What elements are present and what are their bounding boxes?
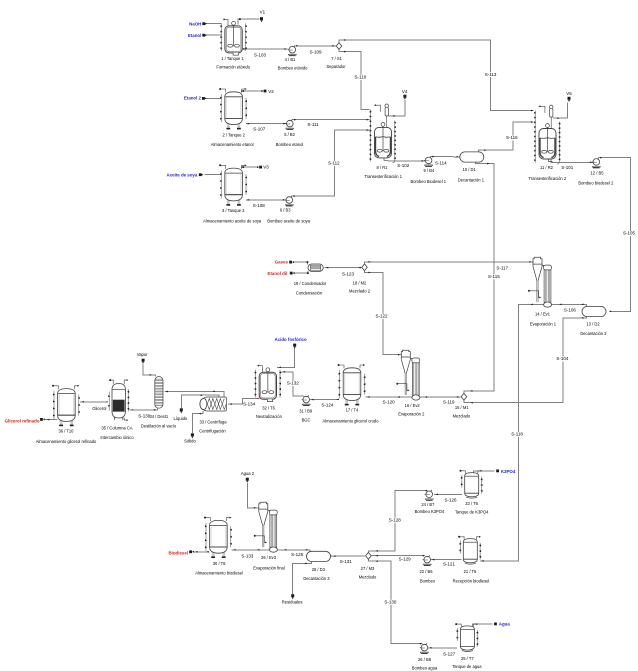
tank 21/T5 Recepcion biodiesel — [458, 536, 481, 564]
svg-text:S-119: S-119 — [443, 399, 455, 404]
wire S-124 — [310, 399, 338, 401]
pump 9/B4 Bombeo Biodesel 1 — [424, 156, 433, 167]
svg-text:S-101: S-101 — [561, 165, 574, 170]
tank 30/T8 Almacenamiento biodiesel — [204, 517, 232, 558]
terminal Etanol — [202, 34, 205, 37]
wire Etanol 2 inlet — [206, 97, 221, 99]
wire Vapor inlet — [143, 364, 156, 377]
svg-text:15 / M1: 15 / M1 — [455, 405, 469, 410]
wire V1 vent — [238, 19, 260, 25]
svg-text:V5: V5 — [566, 91, 572, 96]
terminal Acido fosforico — [293, 344, 296, 347]
svg-text:Tanque de agua: Tanque de agua — [452, 664, 482, 669]
svg-text:Transesterificación 1: Transesterificación 1 — [364, 174, 402, 179]
label S-132 — [287, 381, 298, 386]
svg-text:S-122: S-122 — [375, 314, 388, 319]
svg-text:5 / B2: 5 / B2 — [284, 132, 295, 137]
svg-text:Almacenamiento glicerol refina: Almacenamiento glicerol refinado — [36, 439, 97, 444]
wire S-106 S-118 — [480, 304, 587, 561]
svg-text:Evaporación final: Evaporación final — [253, 566, 284, 571]
svg-text:Almacenamiento glicerol crudo: Almacenamiento glicerol crudo — [323, 418, 380, 423]
svg-text:Centrifugación: Centrifugación — [199, 428, 226, 433]
svg-text:26 / B8: 26 / B8 — [418, 657, 432, 662]
wire S-107 — [246, 123, 286, 125]
wire Acido fosforico inlet — [277, 349, 295, 368]
mixer 15/M1 Mezclado — [461, 393, 467, 400]
wire NaOH inlet — [206, 23, 221, 25]
label S-110 — [355, 75, 366, 80]
decanter 28/D3 Decantacion 3 — [307, 551, 331, 561]
tank 17/T4 Almacenamiento glicerol crudo — [338, 364, 366, 405]
label S-104 — [557, 357, 568, 362]
svg-text:S-129: S-129 — [399, 556, 412, 561]
wire S-115 — [464, 162, 494, 393]
wire S-116 — [478, 122, 533, 153]
svg-text:V2: V2 — [268, 89, 274, 94]
svg-text:S-107: S-107 — [253, 127, 266, 132]
wire S-129 — [372, 555, 426, 557]
svg-text:S-120: S-120 — [383, 399, 396, 404]
wire S-128 — [368, 491, 427, 553]
wire Glicerol — [80, 401, 107, 403]
terminal K3PO4 — [496, 470, 499, 473]
wire S-101 — [551, 160, 593, 163]
svg-text:S-118: S-118 — [511, 432, 523, 437]
wire S-110 splitter bottom branch — [339, 49, 370, 109]
svg-text:8 / R1: 8 / R1 — [377, 165, 389, 170]
label S-122 — [376, 314, 387, 319]
label S-116 — [506, 136, 517, 141]
label S-112 — [328, 161, 339, 166]
wire S-122 — [365, 271, 402, 355]
wire V3 vent — [242, 167, 259, 169]
wire Solido outlet — [192, 411, 203, 433]
svg-text:Tanque de K3PO4: Tanque de K3PO4 — [455, 510, 489, 515]
centrifuge 33/Centrifuga — [200, 397, 227, 411]
svg-text:16 / Ev2: 16 / Ev2 — [405, 403, 421, 408]
svg-text:S-123: S-123 — [342, 272, 355, 277]
svg-text:Almacenamiento etanol: Almacenamiento etanol — [211, 142, 254, 147]
svg-text:Formación etóxido: Formación etóxido — [216, 65, 250, 70]
pump 31/B9 BGC — [302, 395, 311, 406]
svg-text:S-132: S-132 — [287, 381, 300, 386]
svg-text:27 / M3: 27 / M3 — [361, 566, 375, 571]
svg-text:S-104: S-104 — [556, 356, 569, 361]
svg-text:Gases: Gases — [275, 260, 289, 265]
svg-text:V3: V3 — [263, 164, 269, 169]
tank 3/Tanque 3 Almacenamiento aceite de soya — [219, 164, 247, 205]
reactor 8/R1 Transesterificacion 1 — [370, 104, 396, 163]
wire Gases outlet — [292, 262, 307, 265]
svg-text:Decantación 3: Decantación 3 — [303, 576, 330, 581]
wire S-108 — [246, 199, 286, 201]
svg-text:14 / Ev1: 14 / Ev1 — [535, 311, 551, 316]
svg-text:17 / T4: 17 / T4 — [346, 407, 359, 412]
terminal Glicerol refinado — [40, 418, 43, 421]
svg-text:33 / Centrífuga: 33 / Centrífuga — [199, 419, 227, 424]
svg-text:Etanol 2: Etanol 2 — [184, 96, 202, 101]
svg-text:25 / T7: 25 / T7 — [461, 656, 474, 661]
wire S-123 — [324, 267, 361, 269]
svg-text:24 / B7: 24 / B7 — [421, 502, 435, 507]
wire S-113 splitter top branch — [339, 40, 534, 111]
wire Agua inlet — [473, 624, 493, 626]
wire Biodiesel outlet — [193, 551, 209, 553]
svg-text:Decantación 1: Decantación 1 — [458, 178, 485, 183]
svg-text:28 / D3: 28 / D3 — [312, 567, 326, 572]
svg-text:S-127: S-127 — [443, 651, 456, 656]
svg-text:S-113: S-113 — [485, 72, 497, 77]
svg-text:Bombeo: Bombeo — [420, 578, 436, 583]
label S-115 — [488, 274, 499, 279]
svg-text:Glicerol refinado: Glicerol refinado — [5, 418, 40, 423]
svg-text:S-105: S-105 — [623, 231, 636, 236]
pump 5/B2 Bombeo etanol — [285, 119, 294, 130]
svg-text:23 / T6: 23 / T6 — [465, 501, 478, 506]
wire S-131 — [330, 555, 365, 557]
svg-text:Residuales: Residuales — [282, 599, 303, 604]
wire S-109 — [295, 45, 336, 47]
tank 23/T6 Tanque de K3PO4 — [460, 470, 483, 498]
label S-113 — [485, 72, 496, 77]
svg-text:31 / B9: 31 / B9 — [299, 408, 313, 413]
svg-text:Líquido: Líquido — [174, 416, 188, 421]
svg-text:Glicerol: Glicerol — [92, 406, 106, 411]
svg-text:12 / B5: 12 / B5 — [591, 170, 605, 175]
pump 24/B7 Bombeo K3PO4 — [425, 490, 434, 501]
svg-text:S-126: S-126 — [444, 498, 457, 503]
terminal Residuales — [291, 594, 294, 597]
label S-130 water — [385, 600, 396, 605]
svg-text:Transesterificación 2: Transesterificación 2 — [528, 176, 566, 181]
reactor 11/R2 Transesterificacion 2 — [534, 105, 560, 164]
svg-text:Almacenamiento aceite de soya: Almacenamiento aceite de soya — [203, 218, 262, 223]
svg-text:Agua: Agua — [499, 621, 511, 626]
wire Aceite de soya inlet — [205, 174, 222, 176]
wire S-126 — [434, 493, 462, 495]
wire S-102 — [388, 160, 425, 162]
wire S-111 — [292, 119, 370, 121]
wire Residuales outlet — [293, 561, 312, 593]
svg-text:Recepción biodiesel: Recepción biodiesel — [453, 578, 490, 583]
svg-text:Mezclado: Mezclado — [453, 413, 471, 418]
svg-text:Etanol dil: Etanol dil — [268, 271, 288, 276]
svg-text:Decantación 2: Decantación 2 — [580, 331, 607, 336]
svg-text:S-128: S-128 — [389, 517, 402, 522]
svg-text:7 / S1: 7 / S1 — [331, 56, 342, 61]
svg-text:3 / Tanque 3: 3 / Tanque 3 — [222, 208, 245, 213]
svg-text:S-121: S-121 — [443, 561, 456, 566]
svg-text:K3PO4: K3PO4 — [501, 469, 516, 474]
wire K3PO4 inlet — [473, 471, 494, 473]
svg-text:11 / R2: 11 / R2 — [540, 165, 554, 170]
svg-text:S-114: S-114 — [435, 161, 447, 166]
svg-text:S-106: S-106 — [564, 307, 577, 312]
svg-text:4 / B1: 4 / B1 — [285, 57, 296, 62]
decanter 13/D2 Decantacion 2 — [582, 306, 606, 316]
svg-text:S-131: S-131 — [340, 559, 353, 564]
svg-text:Bombeo aceite de soya: Bombeo aceite de soya — [267, 219, 311, 224]
tank 32/T6 Neutralizacion — [255, 365, 281, 402]
wire Glicerol refinado outlet — [45, 419, 58, 421]
terminal Solido — [191, 433, 194, 436]
svg-text:Bombeo K3PO4: Bombeo K3PO4 — [415, 509, 445, 514]
svg-text:S-111: S-111 — [307, 122, 319, 127]
svg-text:S-130: S-130 — [384, 599, 397, 604]
terminal V4 — [403, 95, 406, 98]
terminal Etanol dil — [290, 272, 293, 275]
svg-text:Intercambio iónico: Intercambio iónico — [100, 435, 134, 440]
svg-text:22 / B6: 22 / B6 — [420, 569, 434, 574]
terminal Agua 2 — [246, 478, 249, 481]
wire V4 vent — [388, 100, 405, 116]
terminal Biodiesel — [189, 550, 192, 553]
condenser 19/Condensador Condensacion — [308, 264, 323, 271]
wire S-104 — [464, 316, 587, 403]
terminal NaOH — [202, 22, 205, 25]
terminal V2 — [264, 90, 267, 93]
svg-text:Destilación al vacío: Destilación al vacío — [141, 424, 177, 429]
svg-text:19 / Condensador: 19 / Condensador — [294, 281, 327, 286]
svg-text:32 / T6: 32 / T6 — [262, 405, 275, 410]
column 35/Columna CA Intercambio ionico — [108, 379, 129, 421]
wire S-117 — [365, 262, 534, 264]
svg-text:Mezclado: Mezclado — [359, 575, 377, 580]
wire S-134 — [228, 398, 259, 404]
wire Etanol dil outlet — [293, 271, 308, 273]
svg-text:18 / M2: 18 / M2 — [353, 281, 367, 286]
svg-text:Ácido fosfórico: Ácido fosfórico — [274, 337, 307, 342]
svg-text:Etanol: Etanol — [188, 33, 201, 38]
terminal V5 — [568, 97, 571, 100]
svg-text:BGC: BGC — [302, 418, 311, 423]
wire S-132 — [281, 372, 304, 396]
svg-text:Bombeo Biodesel 1: Bombeo Biodesel 1 — [411, 179, 447, 184]
svg-text:S-103: S-103 — [254, 53, 267, 58]
svg-text:6 / B3: 6 / B3 — [280, 208, 291, 213]
svg-text:S-117: S-117 — [496, 266, 508, 271]
terminal V1 — [260, 17, 263, 20]
wire S-119 S-120 evaporator2 bottom — [365, 396, 460, 398]
svg-text:S-108: S-108 — [253, 203, 266, 208]
svg-text:Condensación: Condensación — [296, 290, 323, 295]
svg-text:S-124: S-124 — [321, 402, 334, 407]
terminal Aceite de soya — [199, 173, 202, 176]
label S-128 — [389, 518, 400, 523]
wire S-114 — [431, 156, 460, 158]
svg-text:Evaporación 2: Evaporación 2 — [398, 411, 425, 416]
svg-text:Neutralización: Neutralización — [256, 414, 283, 419]
svg-text:V4: V4 — [402, 89, 408, 94]
svg-text:S-134: S-134 — [243, 401, 256, 406]
wire S-130 to columna CA — [130, 408, 158, 409]
svg-text:13 / D2: 13 / D2 — [586, 321, 600, 326]
svg-text:Bombeo biodesel 2: Bombeo biodesel 2 — [578, 181, 614, 186]
evaporator 29/Ev3 Evaporacion final — [254, 502, 278, 552]
splitter 7/S1 Separador — [336, 43, 342, 50]
label S-105 — [623, 231, 634, 236]
decanter 10/D1 Decantacion 1 — [460, 152, 484, 162]
terminal Gases — [289, 261, 292, 264]
wire S-130 water — [368, 559, 422, 643]
svg-text:9 / B4: 9 / B4 — [424, 168, 435, 173]
svg-text:S-109: S-109 — [309, 49, 322, 54]
svg-text:Vapor: Vapor — [137, 352, 148, 357]
terminal V3 — [259, 166, 262, 169]
tank 36/T10 Almacenamiento glicerol refinado — [52, 385, 80, 426]
pump 4/B1 Bombeo etoxido — [288, 46, 297, 57]
svg-text:V1: V1 — [260, 9, 266, 14]
svg-text:S-125: S-125 — [291, 552, 304, 557]
svg-text:21 / T5: 21 / T5 — [464, 569, 477, 574]
mixer 18/M2 Mezclado 2 — [362, 264, 368, 271]
svg-text:Aceite de soya: Aceite de soya — [167, 172, 198, 177]
pump 12/B5 Bombeo biodesel 2 — [592, 158, 601, 169]
wire centrifuge liquid to column — [165, 391, 224, 397]
wire Agua 2 inlet — [247, 483, 258, 508]
svg-text:Bombeo etóxido: Bombeo etóxido — [278, 66, 308, 71]
wire S-133 S-125 evaporator3 bottom — [232, 550, 310, 552]
wire S-103 — [239, 49, 288, 53]
svg-text:34 / Dest1: 34 / Dest1 — [149, 414, 168, 419]
svg-text:Evaporación 1: Evaporación 1 — [530, 322, 557, 327]
svg-text:S-116: S-116 — [506, 135, 518, 140]
svg-text:Separador: Separador — [326, 64, 346, 69]
svg-text:Bombeo etanol: Bombeo etanol — [276, 142, 304, 147]
svg-text:35 / Columna CA: 35 / Columna CA — [101, 426, 132, 431]
svg-text:Bombeo agua: Bombeo agua — [412, 666, 438, 671]
svg-text:Agua 2: Agua 2 — [241, 471, 255, 476]
svg-text:29 / Ev3: 29 / Ev3 — [261, 555, 277, 560]
svg-text:NaOH: NaOH — [189, 21, 201, 26]
svg-text:S-133: S-133 — [241, 554, 254, 559]
svg-text:Sólido: Sólido — [184, 439, 196, 444]
wire S-121 — [430, 559, 461, 561]
svg-text:2 / Tanque 2: 2 / Tanque 2 — [222, 132, 245, 137]
wire Etanol inlet — [206, 34, 221, 36]
label S-134 — [244, 402, 255, 407]
terminal Agua — [494, 623, 497, 626]
wire V2 vent — [242, 91, 263, 93]
wire S-112 — [291, 130, 369, 196]
wire V5 vent — [553, 103, 567, 119]
mixer 27/M3 Mezclado — [366, 552, 372, 559]
evaporator 14/Ev1 Evaporacion 1 — [528, 257, 552, 307]
svg-text:36 / T10: 36 / T10 — [59, 428, 75, 433]
svg-text:1 / Tanque 1: 1 / Tanque 1 — [221, 56, 244, 61]
svg-text:S-112: S-112 — [328, 161, 340, 166]
terminal Etanol 2 — [202, 97, 205, 100]
evaporator 16/Ev2 Evaporacion 2 — [396, 350, 420, 400]
tank 1/Tanque 1 Formacion etoxido — [220, 18, 246, 55]
column 34/Dest1 Destilacion al vacio — [155, 377, 163, 409]
tank 25/T7 Tanque de agua — [455, 623, 478, 651]
terminal Liquido — [180, 408, 183, 411]
terminal Vapor — [142, 359, 145, 362]
svg-text:Biodiesel: Biodiesel — [168, 550, 188, 555]
pump 22/B6 Bombeo — [423, 555, 432, 566]
wire S-105 — [598, 158, 630, 312]
svg-text:30 / T8: 30 / T8 — [213, 561, 226, 566]
tank 2/Tanque 2 Almacenamiento etanol — [219, 88, 247, 129]
wire Liquido outlet — [181, 395, 219, 408]
pump 6/B3 Bombeo aceite de soya — [285, 196, 294, 207]
svg-text:Almacenamiento biodiesel: Almacenamiento biodiesel — [195, 570, 243, 575]
label S-118 — [512, 432, 523, 437]
pump 26/B8 Bombeo agua — [420, 643, 429, 654]
svg-text:S-110: S-110 — [355, 75, 367, 80]
wire S-127 — [428, 647, 457, 649]
svg-text:Mezclado 2: Mezclado 2 — [349, 289, 371, 294]
svg-text:S-115: S-115 — [488, 274, 500, 279]
svg-text:10 / D1: 10 / D1 — [463, 167, 477, 172]
svg-text:S-102: S-102 — [397, 163, 410, 168]
